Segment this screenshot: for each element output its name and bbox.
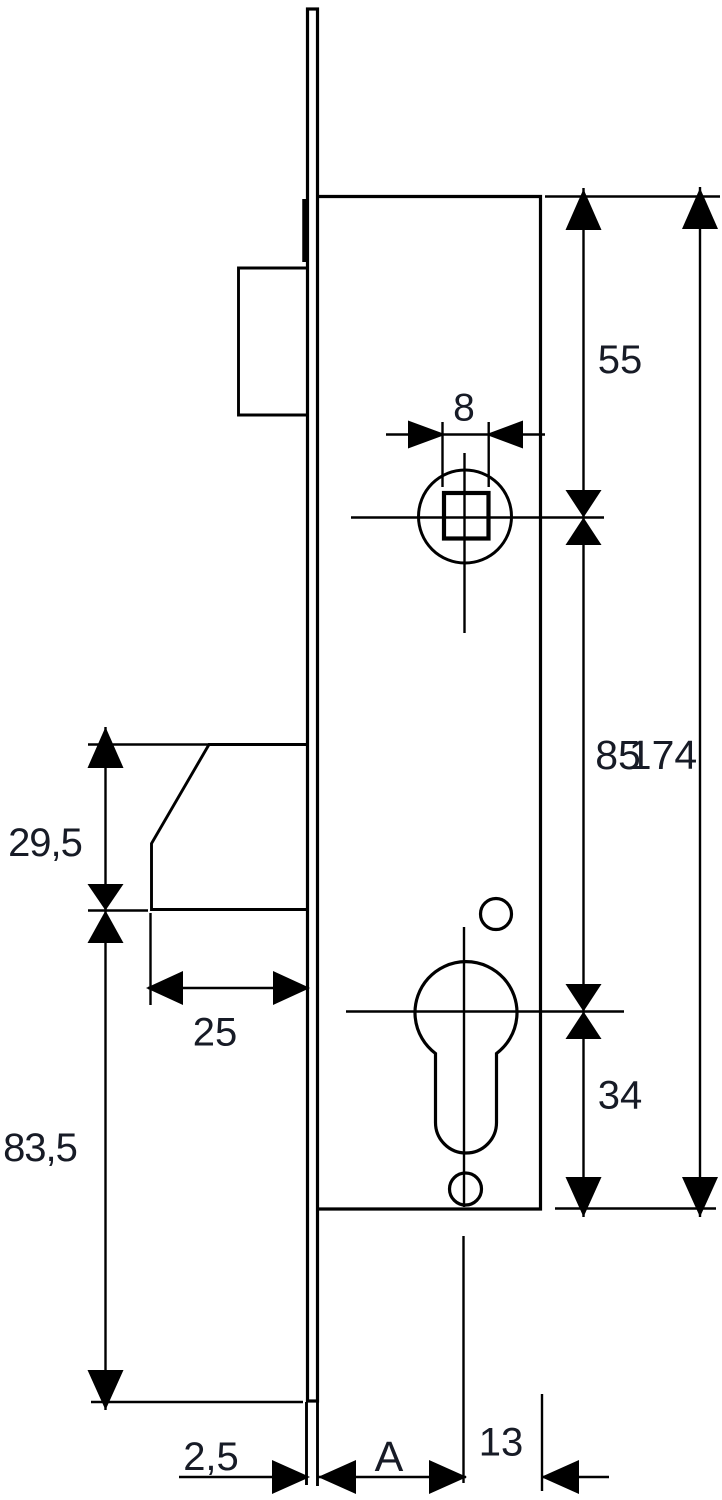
extension lines faceplate edges down bbox=[307, 1402, 318, 1486]
svg-text:8: 8 bbox=[453, 387, 475, 430]
dimension line 174 bbox=[699, 187, 701, 1217]
arrow 8 left bbox=[408, 421, 446, 449]
arrow 174 top bbox=[682, 188, 718, 229]
label 174 bbox=[629, 732, 697, 778]
label 2,5 bbox=[183, 1435, 239, 1479]
extension line faceplate bottom bbox=[91, 1401, 303, 1403]
screw hole upper bbox=[481, 899, 512, 930]
arrow 29,5 top bbox=[88, 727, 124, 768]
svg-text:55: 55 bbox=[598, 338, 643, 382]
arrow 34 bottom bbox=[566, 1177, 602, 1217]
label 29,5 bbox=[8, 821, 82, 865]
label 34 bbox=[598, 1074, 643, 1118]
lock body outline bbox=[319, 197, 541, 1210]
arrow 8 right bbox=[486, 421, 524, 449]
svg-text:29,5: 29,5 bbox=[8, 821, 82, 865]
spindle square hole 8mm bbox=[444, 493, 489, 539]
spindle follower centerline vertical bbox=[463, 453, 465, 633]
extension line bottom (body bottom to right) bbox=[555, 1207, 716, 1209]
screw hole lower bbox=[450, 1173, 482, 1205]
extension line deadbolt top bbox=[88, 743, 209, 745]
svg-text:34: 34 bbox=[598, 1074, 643, 1118]
arrow 2,5 right / A left bbox=[318, 1460, 356, 1494]
dimension line 29,5 / 83,5 bbox=[104, 727, 106, 1410]
faceplate (stulp) bbox=[308, 9, 318, 1401]
extension line 25 left bbox=[149, 913, 151, 1005]
label 55 bbox=[598, 338, 643, 382]
dimension line 25 bbox=[148, 987, 308, 989]
svg-text:A: A bbox=[375, 1433, 404, 1481]
arrow 25 right bbox=[273, 971, 310, 1005]
label A bbox=[375, 1433, 404, 1481]
svg-text:174: 174 bbox=[629, 732, 697, 778]
cylinder axis extension down bbox=[462, 1236, 464, 1483]
spindle follower circle bbox=[419, 470, 512, 563]
arrow pair 29,5/83,5 bbox=[88, 884, 124, 943]
arrow pair at cylinder centerline bbox=[566, 984, 602, 1039]
deadbolt (middle left, chamfered) bbox=[152, 745, 307, 910]
dimension line A bbox=[318, 1476, 466, 1478]
svg-text:13: 13 bbox=[479, 1421, 524, 1465]
label 8 bbox=[453, 387, 475, 430]
label 85 bbox=[595, 732, 641, 778]
8 dim extension lines bbox=[443, 422, 489, 487]
arrow 83,5 bottom bbox=[88, 1370, 124, 1410]
arrow A right / 13 left bbox=[429, 1460, 467, 1494]
8 dimension line bbox=[386, 433, 545, 435]
euro profile cylinder hole bbox=[415, 962, 517, 1153]
arrow 2,5 left bbox=[272, 1460, 310, 1494]
arrow 55 top bbox=[566, 189, 602, 230]
cylinder centerline vertical bbox=[463, 927, 465, 1207]
dimension line 2,5 bbox=[179, 1476, 308, 1478]
cylinder centerline horizontal bbox=[346, 1010, 624, 1012]
extension line deadbolt bottom bbox=[88, 909, 148, 911]
arrow 25 left bbox=[146, 971, 183, 1005]
arrow 174 bottom bbox=[682, 1177, 718, 1217]
arrow pair at spindle centerline bbox=[566, 490, 602, 545]
arrow 13 right bbox=[541, 1460, 579, 1494]
latch bolt (top left) bbox=[239, 268, 307, 415]
svg-text:83,5: 83,5 bbox=[3, 1126, 77, 1170]
spindle follower centerline horizontal bbox=[351, 516, 604, 518]
svg-text:25: 25 bbox=[193, 1011, 238, 1055]
svg-text:2,5: 2,5 bbox=[183, 1435, 239, 1479]
label 13 bbox=[479, 1421, 524, 1465]
dimension line 13 tail bbox=[542, 1476, 609, 1478]
faceplate slot edge above latch bbox=[302, 199, 307, 262]
dimension line 55/85/34 bbox=[582, 188, 584, 1217]
label 25 bbox=[193, 1011, 238, 1055]
label 83,5 bbox=[3, 1126, 77, 1170]
extension line body right edge down bbox=[541, 1394, 543, 1491]
extension line top (body top to right) bbox=[545, 195, 720, 197]
